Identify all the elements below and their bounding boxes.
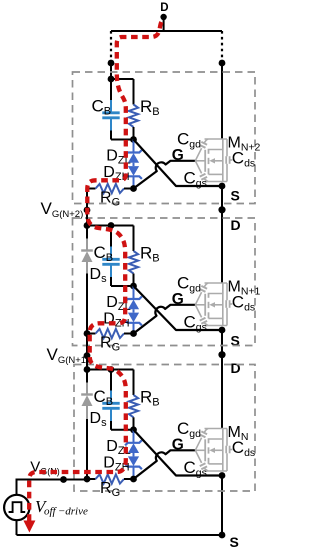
label D (drain of M_N) <box>231 360 241 376</box>
wire: source top lead <box>16 479 18 495</box>
capacitor C_B MN+1 <box>102 226 119 287</box>
junction dot source node MN+2 <box>219 183 226 190</box>
label S (source of M_N+1) <box>231 333 240 349</box>
wire: top rail of gate network MN+2 <box>111 78 134 80</box>
junction dot zener top MN <box>130 426 137 433</box>
wire: bottom rail <box>17 534 223 536</box>
wire: bottom rail of RC network MN+2 <box>111 139 134 141</box>
label D_ZH MN+2 <box>103 164 129 183</box>
wire: bottom rail of RC network MN+1 <box>111 285 134 287</box>
resistor R_B MN <box>129 370 138 430</box>
node V_G(N+2) dot <box>84 207 91 214</box>
node V_G(N+1) dot <box>84 352 91 359</box>
junction dot left rail top <box>108 60 115 67</box>
label D (drain terminal) <box>160 2 168 14</box>
label C_gs of MN+2 <box>184 168 207 189</box>
resistor R_G MN+1 <box>87 329 134 338</box>
label D_ZL MN+2 <box>106 148 130 167</box>
junction dot source node MN+1 <box>219 327 226 334</box>
svg-text:D: D <box>160 2 168 14</box>
wire: source M_N+2 to drain M_N+1 <box>221 186 223 283</box>
label C_gs of MN <box>184 458 207 479</box>
label D_ZL MN <box>106 438 130 457</box>
zener diode D_ZL MN+2 <box>125 140 142 167</box>
wire: left vertical through D_s MN+1 <box>86 226 88 334</box>
junction dot C_B top node MN+2 <box>108 76 115 83</box>
label C_gs of MN+1 <box>184 312 207 333</box>
wire: V_G(N+1) vertical <box>86 334 88 370</box>
label R_B MN+1 <box>140 244 160 265</box>
svg-text:S: S <box>230 534 239 550</box>
wire: left stub into cell N+2 <box>110 63 112 79</box>
wire: bottom rail of RC network MN <box>111 429 134 431</box>
label R_G MN <box>100 480 120 499</box>
red dashed turn-off gate current path <box>29 22 161 521</box>
label C_gd of MN <box>177 419 201 440</box>
wire: R_G MN+2 corner down to V_G(N+2) <box>86 189 88 226</box>
wire: top rail of gate network MN <box>87 369 134 371</box>
wire MN+2: zener bottom to gate G (with hop over crossing) <box>134 161 196 189</box>
transistor MN+2 (gray MOSFET symbol) <box>195 139 232 182</box>
label D_ZL MN+1 <box>106 294 130 313</box>
label C_ds of MN+1 <box>232 293 255 314</box>
junction dot zener bottom MN+2 <box>130 185 137 192</box>
wire MN: zener top to source (crosses under gate wire) <box>134 430 223 476</box>
diode D_s MN <box>81 370 93 480</box>
label G of MN+1 <box>172 291 184 308</box>
zener diode D_ZH MN <box>125 456 142 479</box>
junction dot at left top node MN <box>84 366 91 373</box>
label V_G(N+2) <box>41 199 84 220</box>
label R_B MN+2 <box>140 97 160 118</box>
wire MN+2: zener top to source (crosses under gate wire) <box>134 140 223 187</box>
junction dot at left top node MN+1 <box>84 222 91 229</box>
resistor R_B MN+1 <box>129 226 138 287</box>
cell boundary (dashed) for MN <box>74 365 255 492</box>
transistor MN (gray MOSFET symbol) <box>195 429 232 472</box>
svg-text:off −drive: off −drive <box>44 506 88 518</box>
junction dot C_B top node MN <box>108 366 115 373</box>
label D (drain of M_N+1) <box>231 217 241 233</box>
svg-text:S: S <box>231 188 240 204</box>
junction dot C_B top node MN+1 <box>108 222 115 229</box>
cell boundary (dashed) for MN+1 <box>73 218 256 346</box>
wire: drain rail to M_N+2 <box>221 63 223 139</box>
label R_G MN+2 <box>100 190 120 209</box>
junction dot zener bottom MN <box>130 476 137 483</box>
node dot at D_s junction cell N <box>84 476 90 482</box>
resistor R_G MN <box>87 474 134 483</box>
label C_ds of MN <box>232 438 255 459</box>
zener diode D_ZH MN+2 <box>125 166 142 188</box>
wire: left vertical through D_s MN <box>86 370 88 480</box>
label V_G(N+1) <box>47 345 90 366</box>
label D_s MN+1 <box>90 266 108 285</box>
junction dot between cells 2-3 <box>218 351 225 358</box>
label C_B MN+1 <box>94 243 114 264</box>
label S (source of M_N+2) <box>231 188 240 204</box>
node D dot <box>160 14 166 20</box>
resistor R_B MN+2 <box>129 79 138 140</box>
wire: top rail of gate network MN+1 <box>87 225 134 227</box>
junction dot zener top MN+2 <box>130 136 137 143</box>
zener diode D_ZL MN <box>125 430 142 457</box>
junction dot bottom S <box>219 532 226 539</box>
wire: D stub <box>163 17 165 31</box>
svg-text:G: G <box>172 436 184 453</box>
label C_B MN+2 <box>92 97 112 118</box>
wire: dotted continuation right <box>221 31 223 60</box>
svg-text:G: G <box>172 291 184 308</box>
junction dot right rail top <box>219 60 226 67</box>
label M of MN+2 <box>228 135 261 154</box>
junction dot between cells 1-2 <box>218 206 225 213</box>
cell boundary (dashed) for MN+2 <box>73 72 256 204</box>
diode D_s MN+1 <box>81 226 93 334</box>
junction dot source node MN <box>219 472 226 479</box>
node V_G(N) dot <box>60 476 67 483</box>
label V_off-drive <box>35 497 88 518</box>
label D_ZH MN+1 <box>103 311 129 330</box>
zener diode D_ZH MN+1 <box>125 313 142 334</box>
label C_gd of MN+1 <box>177 274 201 295</box>
voltage source V_off-drive (pulse source circle) <box>4 495 29 520</box>
label C_gd of MN+2 <box>177 130 201 151</box>
transistor MN+1 (gray MOSFET symbol) <box>195 283 232 326</box>
label D_ZH MN <box>103 455 129 474</box>
resistor R_G MN+2 <box>87 184 134 193</box>
red path arrowhead <box>23 521 35 533</box>
wire: source M_N+1 to drain M_N <box>221 330 223 429</box>
wire: top rail <box>111 30 222 32</box>
wire: V_G(N) rail to source <box>17 478 88 481</box>
label C_ds of MN+2 <box>232 149 255 170</box>
label G of MN+2 <box>172 147 184 164</box>
label V_G(N) <box>30 459 60 477</box>
svg-text:D: D <box>231 360 241 376</box>
label M of MN <box>228 424 249 443</box>
label M of MN+1 <box>228 279 261 298</box>
capacitor C_B MN+2 <box>102 79 119 140</box>
svg-text:D: D <box>231 217 241 233</box>
junction dot zener top MN+1 <box>130 283 137 290</box>
zener diode D_ZL MN+1 <box>125 286 142 313</box>
wire MN: zener bottom to gate G (with hop over crossing) <box>134 450 196 479</box>
junction dot R_G left MN+1 <box>84 330 91 337</box>
label R_B MN <box>140 388 160 409</box>
label R_G MN+1 <box>100 335 120 354</box>
wire MN+1: zener bottom to gate G (with hop over crossing) <box>134 305 196 334</box>
label D_s MN <box>90 410 108 429</box>
svg-text:G: G <box>172 147 184 164</box>
junction dot zener bottom MN+1 <box>130 330 137 337</box>
wire: source M_N to bottom <box>221 476 223 536</box>
label S (bottom source terminal) <box>230 534 239 550</box>
label G of MN <box>172 436 184 453</box>
wire: source bottom lead <box>16 520 18 535</box>
wire: dotted continuation left <box>110 31 112 60</box>
junction dot R_G left MN <box>84 476 91 483</box>
capacitor C_B MN <box>102 370 119 430</box>
wire MN+1: zener top to source (crosses under gate wire) <box>134 286 223 330</box>
label C_B MN <box>94 387 114 408</box>
